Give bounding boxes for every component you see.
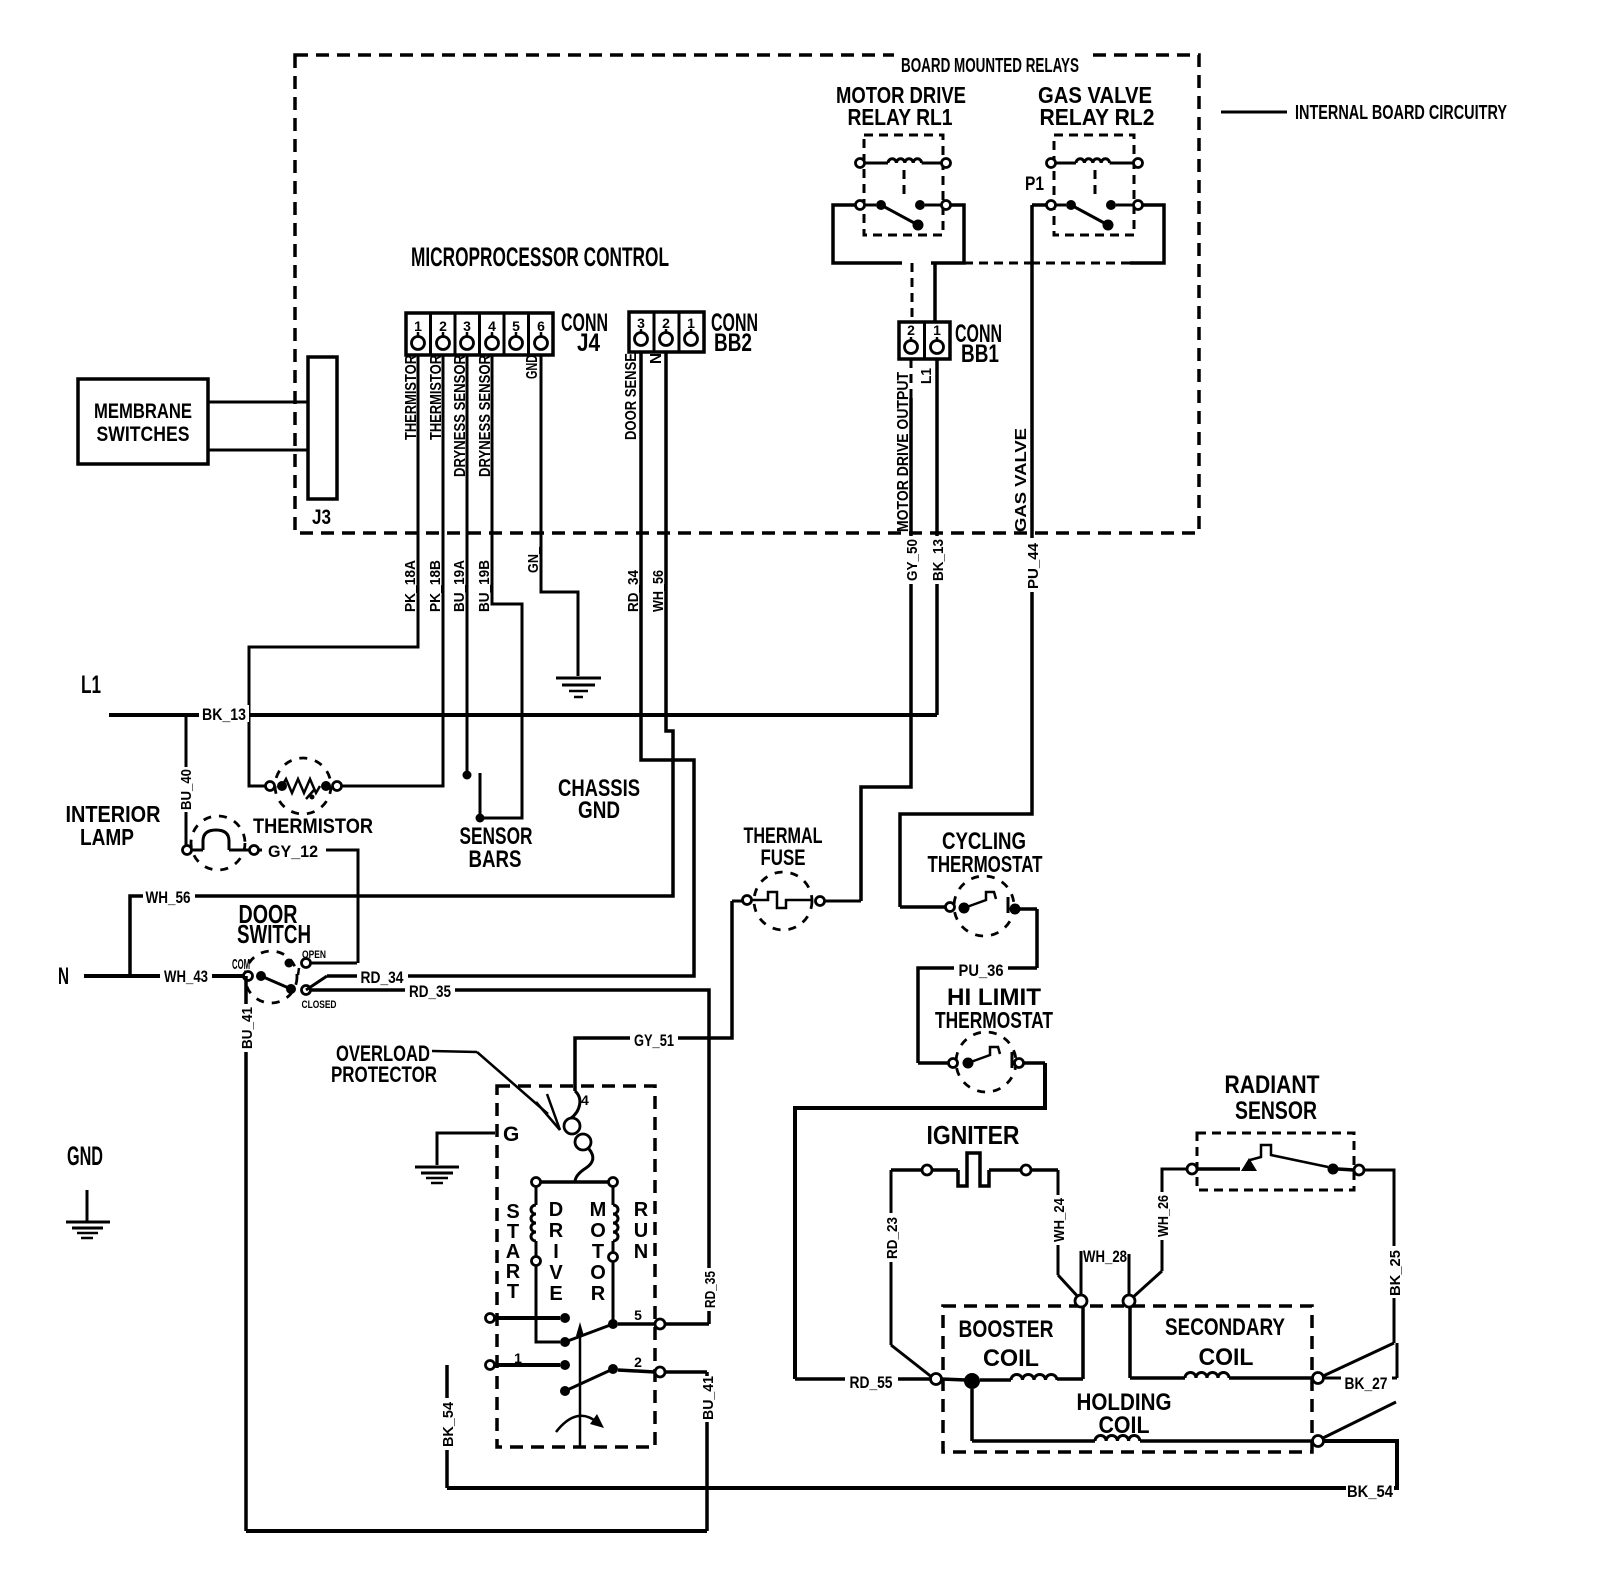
svg-text:L1: L1 bbox=[918, 368, 935, 384]
wire RD_34 from BB2 bbox=[327, 352, 694, 976]
svg-text:G: G bbox=[503, 1123, 519, 1146]
rotation arrow bbox=[556, 1414, 604, 1432]
label PU_44 bbox=[1022, 538, 1042, 592]
svg-text:2: 2 bbox=[439, 318, 447, 334]
svg-text:J4: J4 bbox=[577, 329, 600, 357]
svg-text:BARS: BARS bbox=[469, 846, 522, 873]
svg-text:MICROPROCESSOR CONTROL: MICROPROCESSOR CONTROL bbox=[411, 242, 669, 272]
svg-text:RELAY RL1: RELAY RL1 bbox=[848, 104, 953, 130]
wire bottom return BU_41 bbox=[246, 1529, 707, 1533]
overload protector bbox=[564, 1091, 593, 1182]
node booster junction bbox=[941, 1373, 980, 1389]
svg-text:SWITCH: SWITCH bbox=[237, 919, 311, 949]
label igniter bbox=[927, 1120, 1020, 1150]
wire hi limit to igniter circuit bbox=[795, 1063, 1045, 1379]
svg-text:MEMBRANE: MEMBRANE bbox=[94, 400, 192, 423]
svg-text:PK_18B: PK_18B bbox=[427, 560, 444, 612]
svg-text:DOOR SENSE: DOOR SENSE bbox=[623, 353, 640, 440]
relay RL2 label bbox=[1038, 82, 1155, 130]
svg-text:RD_34: RD_34 bbox=[361, 969, 405, 987]
svg-text:N: N bbox=[58, 963, 69, 990]
node L1 bbox=[81, 671, 101, 699]
motor start winding bbox=[531, 1187, 560, 1342]
label chassis gnd bbox=[558, 775, 640, 824]
node G bbox=[503, 1123, 519, 1146]
wire WH_56 from BB2 bbox=[130, 352, 673, 976]
svg-text:GN_: GN_ bbox=[525, 546, 542, 573]
svg-text:MOTOR DRIVE OUTPUT: MOTOR DRIVE OUTPUT bbox=[895, 372, 912, 532]
label motor bbox=[590, 1199, 607, 1305]
svg-text:U: U bbox=[634, 1220, 648, 1242]
label booster coil bbox=[959, 1316, 1054, 1372]
wire GY_12 lamp to door switch bbox=[258, 841, 358, 963]
relay RL2 contact wiring box bbox=[1032, 205, 1164, 263]
svg-text:5: 5 bbox=[512, 318, 520, 334]
node P1 bbox=[1025, 174, 1044, 195]
svg-text:WH_26: WH_26 bbox=[1155, 1195, 1172, 1237]
svg-text:1: 1 bbox=[933, 322, 941, 338]
svg-text:S: S bbox=[506, 1201, 519, 1223]
svg-text:I: I bbox=[553, 1241, 559, 1263]
wire PK_18B bbox=[340, 355, 444, 786]
label holding coil bbox=[1077, 1389, 1172, 1439]
svg-text:GND: GND bbox=[524, 355, 541, 379]
svg-text:SWITCHES: SWITCHES bbox=[97, 423, 190, 446]
relay RL2 armature link bbox=[1094, 170, 1097, 199]
radiant sensor bbox=[1187, 1133, 1364, 1190]
svg-text:WH_24: WH_24 bbox=[1051, 1197, 1068, 1242]
svg-text:IGNITER: IGNITER bbox=[927, 1120, 1020, 1150]
wire PK_18A bbox=[249, 355, 419, 786]
svg-text:BK_25: BK_25 bbox=[1387, 1250, 1404, 1296]
wire BU_40 lamp feed bbox=[175, 715, 195, 845]
label L1 pin bbox=[918, 368, 935, 384]
svg-text:RD_35: RD_35 bbox=[409, 983, 451, 1001]
label overload protector bbox=[331, 1041, 437, 1087]
connector J4 bbox=[406, 309, 608, 357]
motor dashed enclosure bbox=[497, 1086, 655, 1447]
dashed link between relay boxes bbox=[964, 262, 1032, 265]
wire ground to motor frame bbox=[437, 1133, 495, 1165]
relay RL1 label bbox=[836, 82, 966, 130]
svg-text:COIL: COIL bbox=[1099, 1412, 1150, 1439]
wire GY_50 motor drive output bbox=[861, 359, 921, 901]
svg-text:RADIANT: RADIANT bbox=[1225, 1071, 1320, 1099]
overload protector pointer bbox=[432, 1051, 560, 1130]
svg-text:N: N bbox=[634, 1241, 648, 1263]
sensor bar right electrode bbox=[476, 773, 485, 823]
svg-text:BB2: BB2 bbox=[714, 329, 752, 357]
wire RL1 to BB1 pin2 dashed bbox=[911, 263, 914, 320]
svg-text:R: R bbox=[549, 1220, 564, 1242]
centrifugal linkage arrow bbox=[576, 1322, 584, 1447]
svg-text:GY_12: GY_12 bbox=[268, 843, 318, 861]
svg-text:5: 5 bbox=[634, 1307, 642, 1323]
svg-text:3: 3 bbox=[463, 318, 471, 334]
node GND bbox=[67, 1141, 103, 1171]
secondary coil bbox=[1130, 1307, 1324, 1384]
relay RL2 dashed enclosure bbox=[1054, 135, 1134, 235]
svg-text:GND: GND bbox=[67, 1141, 103, 1171]
wire N bus WH_43 bbox=[84, 964, 244, 986]
svg-text:PU_36: PU_36 bbox=[959, 962, 1004, 980]
label thermistor bbox=[253, 815, 373, 838]
wire RD_34 door switch branch bbox=[306, 963, 408, 990]
motor switch contact 5 bbox=[608, 1307, 709, 1329]
svg-text:RD_55: RD_55 bbox=[850, 1374, 893, 1392]
gas valve dashed enclosure bbox=[943, 1306, 1312, 1452]
svg-text:BU_40: BU_40 bbox=[178, 769, 195, 810]
wire RL1 to BB1 pin1 bbox=[933, 263, 937, 321]
svg-text:INTERNAL BOARD CIRCUITRY: INTERNAL BOARD CIRCUITRY bbox=[1295, 102, 1507, 124]
svg-text:R: R bbox=[591, 1283, 606, 1305]
motor top bus bbox=[532, 1178, 618, 1187]
svg-text:BU_41: BU_41 bbox=[700, 1376, 717, 1420]
svg-text:6: 6 bbox=[537, 318, 545, 334]
wire BK_27 bbox=[1324, 1343, 1397, 1393]
svg-text:J3: J3 bbox=[312, 506, 331, 529]
svg-text:THERMOSTAT: THERMOSTAT bbox=[935, 1007, 1053, 1033]
relay RL2 coil bbox=[1047, 159, 1143, 168]
svg-text:GND: GND bbox=[578, 797, 620, 824]
wire holding coil diagonal bbox=[1323, 1402, 1396, 1438]
svg-text:R: R bbox=[506, 1261, 521, 1283]
svg-text:THERMISTOR: THERMISTOR bbox=[253, 815, 373, 838]
relay RL1 coil bbox=[856, 159, 951, 168]
relay RL1 contacts bbox=[856, 200, 951, 231]
motor run winding bbox=[609, 1187, 619, 1324]
svg-text:BOOSTER: BOOSTER bbox=[959, 1316, 1054, 1343]
svg-text:M: M bbox=[590, 1199, 607, 1221]
svg-text:T: T bbox=[507, 1221, 519, 1243]
label start winding bbox=[506, 1201, 521, 1303]
svg-text:T: T bbox=[507, 1281, 519, 1303]
svg-text:WH_43: WH_43 bbox=[164, 968, 208, 986]
label radiant sensor bbox=[1225, 1071, 1320, 1125]
label hi limit thermostat bbox=[935, 984, 1053, 1033]
board mounted relays title bbox=[894, 50, 1086, 77]
wire WH_24 bbox=[1048, 1170, 1080, 1299]
node N bbox=[58, 963, 69, 990]
motor switch contact 1 bbox=[486, 1350, 571, 1370]
wire GN_ chassis ground bbox=[525, 355, 578, 676]
svg-text:GY_51: GY_51 bbox=[634, 1032, 674, 1050]
svg-text:O: O bbox=[590, 1262, 606, 1284]
svg-text:D: D bbox=[549, 1199, 563, 1221]
internal board circuitry dashed outline bbox=[295, 55, 1199, 533]
wire BK_13 L1 feed bbox=[926, 359, 948, 715]
svg-text:GY_50: GY_50 bbox=[904, 539, 921, 581]
svg-text:PU_44: PU_44 bbox=[1025, 542, 1042, 589]
wire PU_36 bbox=[918, 959, 1037, 1063]
svg-text:PROTECTOR: PROTECTOR bbox=[331, 1062, 437, 1087]
wire RD_23 bbox=[881, 1170, 933, 1378]
wire membrane to J3 upper bbox=[208, 401, 308, 404]
svg-text:E: E bbox=[549, 1283, 562, 1305]
svg-text:BK_13: BK_13 bbox=[930, 539, 947, 581]
interior lamp bbox=[183, 816, 259, 870]
svg-text:WH_56: WH_56 bbox=[650, 570, 667, 612]
svg-text:BK_54: BK_54 bbox=[1347, 1483, 1394, 1501]
door switch bbox=[232, 949, 337, 1011]
connector BB2 bbox=[629, 309, 758, 357]
svg-text:WH_28: WH_28 bbox=[1083, 1248, 1127, 1266]
label sensor bars bbox=[460, 823, 533, 873]
cycling thermostat bbox=[900, 876, 1037, 968]
svg-text:P1: P1 bbox=[1025, 174, 1044, 195]
wire BU_41 from door switch bbox=[236, 976, 256, 1531]
thermal fuse bbox=[732, 872, 861, 930]
wire WH_26 bbox=[1131, 1169, 1187, 1299]
svg-text:COIL: COIL bbox=[1199, 1344, 1254, 1371]
svg-text:RELAY RL2: RELAY RL2 bbox=[1040, 104, 1155, 130]
svg-text:BU_19A: BU_19A bbox=[451, 560, 468, 612]
svg-text:T: T bbox=[592, 1241, 604, 1263]
wire BK_25 bbox=[1321, 1170, 1404, 1377]
svg-text:3: 3 bbox=[637, 315, 645, 331]
label MOTOR DRIVE OUTPUT bbox=[895, 372, 912, 532]
svg-text:CLOSED: CLOSED bbox=[302, 999, 337, 1011]
ground symbol motor bbox=[415, 1167, 459, 1183]
svg-text:A: A bbox=[506, 1241, 520, 1263]
svg-text:BK_54: BK_54 bbox=[440, 1401, 457, 1447]
svg-text:2: 2 bbox=[662, 315, 670, 331]
svg-text:SENSOR: SENSOR bbox=[1235, 1097, 1317, 1125]
wire RD_55 bbox=[795, 1368, 942, 1392]
igniter bbox=[891, 1153, 1058, 1186]
label secondary coil bbox=[1165, 1314, 1285, 1371]
svg-text:PK_18A: PK_18A bbox=[402, 560, 419, 612]
svg-text:O: O bbox=[590, 1220, 606, 1242]
label interior lamp bbox=[66, 801, 161, 850]
label cycling thermostat bbox=[928, 828, 1043, 877]
relay RL2 contacts bbox=[1047, 200, 1143, 231]
wire membrane to J3 lower bbox=[208, 449, 308, 452]
wire GY_51 bbox=[575, 901, 732, 1091]
wire RD_35 bbox=[309, 982, 719, 1324]
svg-text:FUSE: FUSE bbox=[761, 845, 806, 870]
svg-text:L1: L1 bbox=[81, 671, 101, 699]
relay RL1 dashed enclosure bbox=[864, 135, 943, 235]
internal board circuitry legend bbox=[1221, 102, 1507, 124]
booster coil bbox=[980, 1307, 1083, 1380]
label GAS VALVE bbox=[1013, 428, 1030, 532]
svg-text:1: 1 bbox=[414, 318, 422, 334]
gas valve terminal right bbox=[1123, 1295, 1135, 1307]
holding coil bbox=[972, 1389, 1324, 1447]
relay RL1 armature link bbox=[903, 170, 906, 199]
svg-text:1: 1 bbox=[687, 315, 695, 331]
thermistor bbox=[266, 758, 342, 814]
svg-text:RD_34: RD_34 bbox=[625, 569, 642, 612]
label drive bbox=[549, 1199, 564, 1305]
svg-text:BK_13: BK_13 bbox=[202, 706, 246, 724]
pin labels BB2 bbox=[623, 353, 640, 440]
svg-text:2: 2 bbox=[907, 322, 915, 338]
membrane switches box bbox=[78, 379, 208, 464]
ground symbol main bbox=[66, 1190, 110, 1238]
svg-text:WH_56: WH_56 bbox=[146, 889, 191, 907]
svg-text:2: 2 bbox=[634, 1354, 642, 1370]
svg-text:RD_35: RD_35 bbox=[702, 1271, 719, 1308]
connector BB1 bbox=[899, 320, 1002, 368]
wire L1 bus bbox=[109, 705, 937, 724]
svg-text:BB1: BB1 bbox=[961, 340, 999, 368]
relay RL1 contact wiring box bbox=[833, 205, 964, 263]
label thermal fuse bbox=[744, 823, 823, 870]
connector J3 bbox=[308, 357, 337, 529]
svg-text:4: 4 bbox=[488, 318, 496, 334]
svg-text:LAMP: LAMP bbox=[80, 824, 134, 850]
svg-text:SECONDARY: SECONDARY bbox=[1165, 1314, 1285, 1341]
chassis ground symbol bbox=[556, 678, 601, 697]
svg-text:THERMOSTAT: THERMOSTAT bbox=[928, 851, 1043, 877]
microprocessor control title bbox=[411, 242, 669, 272]
wire BU_19B sensor bar right bbox=[476, 355, 522, 818]
wire BU_19A sensor bar left bbox=[451, 355, 472, 780]
motor switch contact 2 bbox=[560, 1354, 707, 1396]
svg-text:OPEN: OPEN bbox=[302, 949, 326, 961]
svg-text:BU_19B: BU_19B bbox=[476, 560, 493, 612]
wire PU_44 gas valve feed bbox=[900, 205, 1032, 907]
svg-text:V: V bbox=[549, 1262, 563, 1284]
svg-text:R: R bbox=[634, 1199, 649, 1221]
svg-text:COIL: COIL bbox=[983, 1345, 1039, 1372]
svg-text:BU_41: BU_41 bbox=[239, 1007, 256, 1049]
svg-text:BOARD MOUNTED RELAYS: BOARD MOUNTED RELAYS bbox=[901, 55, 1079, 77]
svg-text:4: 4 bbox=[581, 1092, 589, 1108]
wire BU_41 motor side bbox=[697, 1372, 717, 1531]
svg-text:RD_23: RD_23 bbox=[884, 1217, 901, 1259]
svg-text:BK_27: BK_27 bbox=[1345, 1375, 1388, 1393]
svg-text:GAS VALVE: GAS VALVE bbox=[1013, 428, 1030, 532]
gas valve terminal left bbox=[1075, 1295, 1087, 1307]
motor switch upper row bbox=[486, 1313, 614, 1347]
svg-text:N: N bbox=[648, 353, 665, 364]
hi limit thermostat bbox=[918, 1032, 1045, 1092]
label run winding bbox=[634, 1199, 649, 1263]
wire WH_28 stubs bbox=[1081, 1245, 1129, 1295]
pin labels J4 bbox=[403, 355, 420, 440]
wire BK_54 return bbox=[437, 1365, 1397, 1501]
label door switch bbox=[237, 899, 311, 949]
